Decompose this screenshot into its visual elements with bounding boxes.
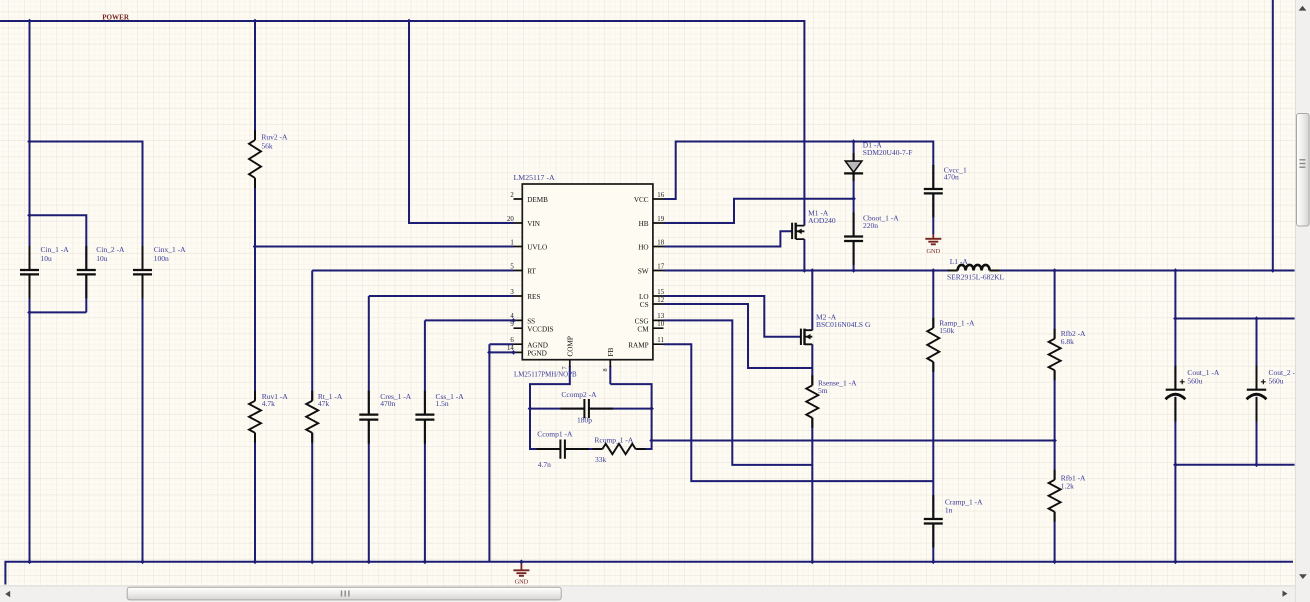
svg-text:560u: 560u bbox=[1269, 377, 1284, 386]
svg-text:LO: LO bbox=[639, 293, 649, 301]
svg-text:13: 13 bbox=[657, 313, 664, 320]
svg-text:1.5n: 1.5n bbox=[436, 399, 449, 408]
svg-text:DEMB: DEMB bbox=[527, 196, 548, 204]
svg-text:HO: HO bbox=[638, 244, 648, 252]
svg-text:Cinx_1 -A: Cinx_1 -A bbox=[154, 245, 186, 254]
svg-text:RES: RES bbox=[527, 293, 540, 301]
svg-text:4.7k: 4.7k bbox=[262, 399, 275, 408]
svg-text:5: 5 bbox=[510, 263, 514, 270]
svg-text:33k: 33k bbox=[595, 455, 607, 464]
svg-text:20: 20 bbox=[507, 216, 514, 223]
svg-text:1.2k: 1.2k bbox=[1061, 482, 1074, 491]
svg-text:56k: 56k bbox=[261, 141, 273, 150]
svg-text:UVLO: UVLO bbox=[527, 244, 547, 252]
svg-text:SDM20U40-7-F: SDM20U40-7-F bbox=[863, 148, 913, 157]
svg-text:4.7n: 4.7n bbox=[538, 460, 551, 469]
svg-text:SER2915L-682KL: SER2915L-682KL bbox=[947, 272, 1005, 281]
svg-text:LM25117 -A: LM25117 -A bbox=[514, 173, 555, 182]
svg-text:47k: 47k bbox=[318, 399, 330, 408]
svg-text:220n: 220n bbox=[863, 221, 878, 230]
svg-text:L1 -A: L1 -A bbox=[950, 257, 969, 266]
svg-text:GND: GND bbox=[515, 578, 529, 585]
svg-text:5m: 5m bbox=[818, 386, 828, 395]
svg-text:Ccomp2 -A: Ccomp2 -A bbox=[561, 390, 597, 399]
svg-text:VIN: VIN bbox=[527, 220, 541, 228]
svg-text:100n: 100n bbox=[154, 254, 169, 263]
svg-text:AOD240: AOD240 bbox=[808, 216, 836, 225]
svg-text:CSG: CSG bbox=[635, 318, 649, 326]
svg-text:7: 7 bbox=[562, 366, 569, 369]
svg-text:SS: SS bbox=[527, 318, 535, 326]
svg-text:CM: CM bbox=[637, 325, 649, 333]
svg-text:RT: RT bbox=[527, 268, 536, 276]
svg-text:4: 4 bbox=[510, 313, 514, 320]
svg-text:1: 1 bbox=[510, 239, 513, 246]
svg-text:6.8k: 6.8k bbox=[1061, 337, 1074, 346]
svg-text:6: 6 bbox=[510, 337, 514, 344]
svg-text:LM25117PMH/NOPB: LM25117PMH/NOPB bbox=[514, 372, 577, 379]
svg-text:19: 19 bbox=[657, 216, 664, 223]
svg-text:POWER: POWER bbox=[102, 13, 130, 21]
svg-text:10u: 10u bbox=[41, 254, 53, 263]
svg-text:VCCDIS: VCCDIS bbox=[527, 325, 553, 333]
svg-text:Ccomp1 -A: Ccomp1 -A bbox=[537, 430, 573, 439]
svg-text:470n: 470n bbox=[380, 399, 395, 408]
svg-text:10u: 10u bbox=[96, 254, 108, 263]
svg-text:470n: 470n bbox=[944, 173, 959, 182]
svg-text:FB: FB bbox=[607, 348, 615, 357]
svg-text:150k: 150k bbox=[939, 326, 954, 335]
svg-text:18: 18 bbox=[657, 239, 664, 246]
svg-text:12: 12 bbox=[657, 297, 664, 304]
svg-text:15: 15 bbox=[657, 289, 664, 296]
svg-text:17: 17 bbox=[657, 263, 664, 270]
svg-text:Rcomp_1 -A: Rcomp_1 -A bbox=[594, 436, 634, 445]
svg-text:560u: 560u bbox=[1187, 377, 1202, 386]
svg-text:SW: SW bbox=[638, 268, 649, 276]
svg-text:VCC: VCC bbox=[634, 196, 649, 204]
svg-text:10: 10 bbox=[657, 321, 664, 328]
svg-text:8: 8 bbox=[602, 368, 609, 371]
svg-text:CS: CS bbox=[640, 301, 649, 309]
svg-text:HB: HB bbox=[639, 220, 649, 228]
svg-text:AGND: AGND bbox=[527, 341, 548, 349]
svg-text:Cin_1 -A: Cin_1 -A bbox=[41, 245, 70, 254]
svg-text:14: 14 bbox=[507, 345, 514, 352]
svg-text:1n: 1n bbox=[945, 506, 953, 515]
svg-text:PGND: PGND bbox=[527, 350, 547, 358]
svg-text:GND: GND bbox=[926, 248, 940, 255]
svg-text:2: 2 bbox=[510, 192, 514, 199]
svg-text:Ruv2 -A: Ruv2 -A bbox=[261, 132, 288, 141]
svg-text:11: 11 bbox=[657, 337, 664, 344]
svg-text:Cin_2 -A: Cin_2 -A bbox=[96, 245, 125, 254]
svg-text:16: 16 bbox=[657, 192, 664, 199]
svg-text:9: 9 bbox=[510, 321, 514, 328]
svg-text:180p: 180p bbox=[577, 415, 592, 424]
svg-text:3: 3 bbox=[510, 289, 514, 296]
svg-text:COMP: COMP bbox=[567, 336, 575, 356]
svg-text:BSC016N04LS G: BSC016N04LS G bbox=[816, 320, 871, 329]
svg-text:RAMP: RAMP bbox=[628, 341, 648, 349]
